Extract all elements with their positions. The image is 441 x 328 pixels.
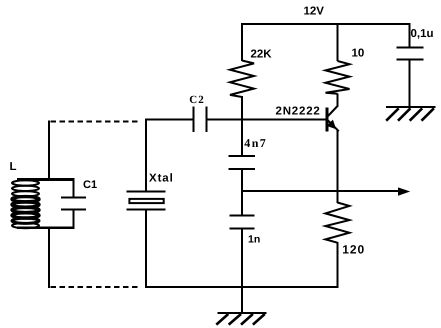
svg-text:120: 120 (342, 243, 365, 257)
svg-text:L: L (10, 161, 17, 173)
svg-text:C2: C2 (189, 94, 204, 106)
svg-text:2N2222: 2N2222 (276, 105, 321, 117)
svg-text:1n: 1n (248, 233, 260, 245)
svg-text:12V: 12V (304, 5, 325, 17)
svg-text:4n7: 4n7 (244, 136, 267, 150)
svg-text:10: 10 (352, 47, 365, 59)
svg-text:22K: 22K (251, 48, 273, 60)
svg-text:0,1u: 0,1u (411, 28, 434, 40)
svg-text:C1: C1 (83, 179, 97, 191)
svg-text:Xtal: Xtal (149, 172, 174, 184)
